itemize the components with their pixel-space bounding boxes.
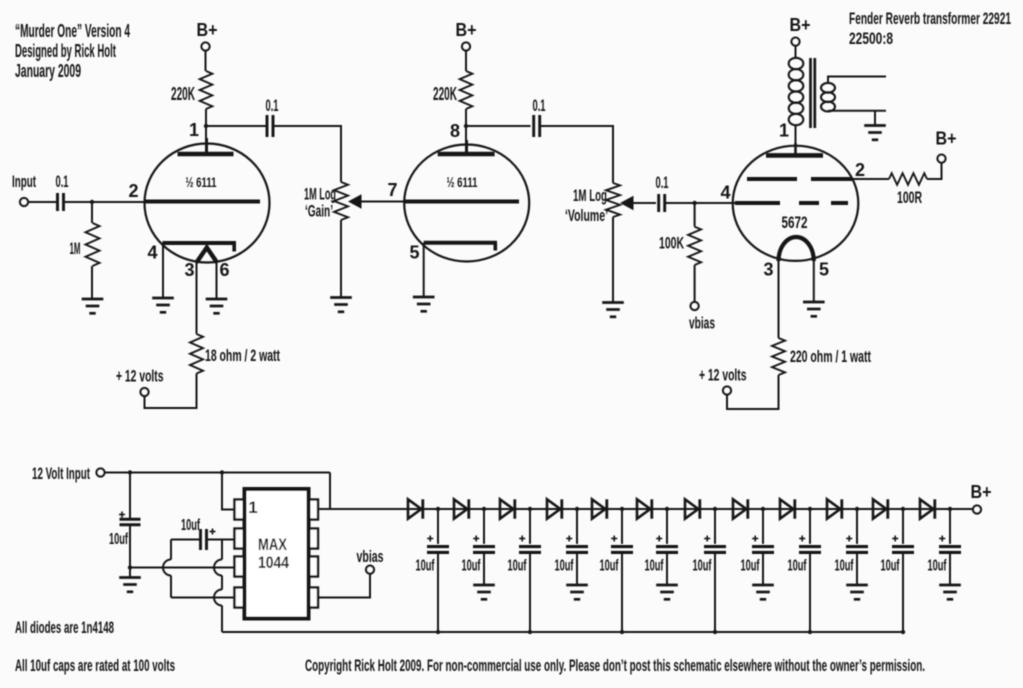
- capacitor 10uf ladder C5: [611, 547, 633, 553]
- label 10uf ladder C6: [645, 558, 664, 575]
- ground gain pot: [330, 298, 352, 312]
- wire cap C10 to ground: [856, 552, 858, 585]
- wire cap C4 top lead: [576, 509, 578, 544]
- node rail junction C3: [528, 630, 532, 634]
- plus sign ladder C3: [519, 536, 525, 542]
- svg-text:10uf: 10uf: [181, 517, 200, 534]
- ground pin 5 V2: [413, 297, 435, 311]
- svg-text:MAX: MAX: [258, 535, 288, 554]
- node junction after D3: [528, 507, 532, 511]
- wire cap C12 to ground: [949, 552, 951, 585]
- wire cap B minus to pin 4: [171, 597, 235, 599]
- tube V2 plate riser: [465, 140, 468, 154]
- svg-text:4: 4: [720, 183, 730, 203]
- svg-text:10uf: 10uf: [109, 531, 128, 548]
- svg-text:0.1: 0.1: [266, 96, 279, 115]
- wire cap C5 to pump rail: [621, 552, 623, 632]
- node junction after D9: [808, 507, 812, 511]
- svg-text:B+: B+: [197, 20, 218, 40]
- label Gain: [305, 202, 333, 221]
- svg-text:B+: B+: [456, 20, 477, 40]
- node junction after D10: [855, 507, 859, 511]
- diode D4 1n4148: [547, 499, 562, 518]
- plus sign ladder C5: [611, 536, 617, 542]
- plus sign ladder C1: [427, 536, 433, 542]
- diode D8 1n4148: [733, 499, 748, 518]
- wire cap C2 to ground: [483, 552, 485, 585]
- label 10uf ladder C3: [508, 558, 527, 575]
- wire 1M to ground: [91, 266, 93, 299]
- node rail junction C9: [808, 630, 812, 634]
- label +12 volts stage 1: [116, 367, 164, 386]
- capacitor 10uf ladder C11: [892, 547, 914, 553]
- tube V2 half 6111 envelope: [404, 145, 529, 262]
- svg-text:5: 5: [409, 243, 419, 263]
- wire pin 3 V3 to R 220ohm: [778, 259, 780, 338]
- pin 8 label: [450, 121, 460, 141]
- wire secondary bottom lead: [828, 110, 886, 112]
- terminal +12 volts stage 3: [723, 387, 731, 395]
- capacitor 10uf ladder C9: [799, 547, 821, 553]
- wire gain wiper to pin 7: [360, 201, 405, 203]
- svg-text:18 ohm / 2 watt: 18 ohm / 2 watt: [205, 346, 280, 365]
- ground ladder C6: [656, 585, 678, 599]
- terminal 12 volt input: [97, 469, 105, 477]
- node plate junction stage 2: [464, 124, 468, 128]
- svg-text:5672: 5672: [782, 213, 808, 232]
- tube V1 grid bar pin 2: [145, 200, 260, 204]
- wire cap A top lead: [129, 473, 131, 519]
- capacitor C2 0.1 coupling stage 1: [267, 115, 273, 137]
- svg-text:10uf: 10uf: [600, 558, 619, 575]
- label B+ screen: [936, 129, 957, 149]
- label B+ output: [971, 482, 992, 502]
- svg-text:+ 12 volts: + 12 volts: [699, 366, 747, 385]
- svg-text:B+: B+: [971, 482, 992, 502]
- IC U2 MAX1044 pins: [235, 500, 319, 608]
- terminal +12 volts stage 1: [141, 388, 149, 396]
- wire 220ohm to +12V terminal: [727, 375, 779, 409]
- wire cap C12 top lead: [949, 509, 951, 544]
- tube V2 cathode bar: [424, 243, 497, 251]
- svg-text:“Murder One” Version 4: “Murder One” Version 4: [15, 21, 130, 41]
- terminal vbias output: [366, 566, 374, 574]
- label 10uf cap A: [109, 531, 128, 548]
- wire gain pot to ground: [340, 220, 342, 298]
- svg-text:10uf: 10uf: [741, 558, 760, 575]
- capacitor C4 0.1 coupling stage 3: [659, 194, 665, 212]
- pin 2 label V3: [855, 160, 865, 180]
- wire pin 6 to ground: [216, 262, 218, 299]
- resistor 18 ohm 2 watt: [190, 334, 203, 374]
- label Volume: [565, 206, 608, 225]
- label 220K stage 2: [433, 84, 457, 104]
- diode D11 1n4148: [873, 499, 888, 518]
- ground pin 5 V3: [803, 302, 825, 316]
- node junction after D7: [713, 507, 717, 511]
- svg-text:0.1: 0.1: [533, 96, 546, 115]
- label 1044: [258, 553, 289, 572]
- svg-text:1: 1: [248, 498, 257, 517]
- tube V3 plate riser: [794, 143, 797, 155]
- wire 220K to plate stage 2: [465, 109, 467, 154]
- svg-text:½ 6111: ½ 6111: [447, 174, 478, 190]
- tube V1 plate riser: [205, 138, 208, 154]
- svg-text:Designed by Rick Holt: Designed by Rick Holt: [15, 41, 116, 61]
- wire screen to 100R: [852, 178, 889, 180]
- label Input: [12, 172, 36, 191]
- svg-text:10uf: 10uf: [788, 558, 807, 575]
- plus sign ladder C12: [939, 536, 945, 542]
- label 18 ohm / 2 watt: [205, 346, 280, 365]
- node ground junction: [128, 565, 132, 569]
- svg-text:Input: Input: [12, 172, 36, 191]
- terminal B+ transformer: [792, 38, 800, 46]
- label 1M Log volume: [573, 186, 607, 205]
- label 0.1 coupling stage 1: [266, 96, 279, 115]
- pin 4 label: [147, 243, 157, 263]
- terminal vbias stage 3: [691, 302, 699, 310]
- wire cap C1 top lead: [437, 509, 439, 544]
- capacitor 10uf ladder C1: [427, 547, 449, 553]
- pin 6 label: [219, 260, 229, 280]
- svg-text:220K: 220K: [171, 84, 195, 104]
- svg-text:10uf: 10uf: [555, 558, 574, 575]
- svg-text:100K: 100K: [659, 234, 684, 253]
- label 10uf ladder C7: [693, 558, 712, 575]
- wire pin 4 to ground: [162, 243, 164, 298]
- wire pump node vertical with hops: [214, 540, 222, 633]
- wire pump rail: [222, 631, 903, 633]
- pin 3 label V3: [763, 260, 773, 280]
- pin 4 label V3: [720, 183, 730, 203]
- wire diode chain: [318, 508, 973, 510]
- terminal B+ stage 2: [462, 43, 470, 51]
- wire cap C6 to ground: [666, 552, 668, 585]
- pin 2 label: [128, 181, 138, 201]
- plus sign cap B: [210, 529, 216, 535]
- node junction after D6: [665, 507, 669, 511]
- svg-text:22500:8: 22500:8: [849, 29, 893, 48]
- label 22500:8: [849, 29, 893, 48]
- label 10uf ladder C9: [788, 558, 807, 575]
- svg-text:All diodes are 1n4148: All diodes are 1n4148: [15, 618, 114, 637]
- node junction pin1 drop: [220, 470, 224, 474]
- tube V3 control grid dashes pin 4: [735, 201, 848, 205]
- wire C4 to grid pin 4: [665, 202, 735, 204]
- wire cap C8 top lead: [762, 509, 764, 544]
- pot gain wiper arrow: [348, 194, 362, 209]
- label 5672: [782, 213, 808, 232]
- wire C2 to gain pot: [273, 126, 341, 182]
- diode D2 1n4148: [454, 499, 469, 518]
- wire C3 to volume pot: [540, 126, 613, 183]
- plus sign ladder C2: [473, 536, 479, 542]
- wire B+ to R 220K: [205, 51, 207, 72]
- svg-text:January 2009: January 2009: [15, 61, 81, 81]
- label MAX: [258, 535, 288, 554]
- resistor 220 ohm 1 watt: [772, 338, 785, 375]
- plus sign ladder C9: [799, 536, 805, 542]
- svg-text:2: 2: [128, 181, 138, 201]
- plus sign ladder C11: [892, 536, 898, 542]
- wire cap C3 to pump rail: [529, 552, 531, 632]
- wire secondary top lead: [828, 77, 886, 84]
- capacitor 10uf A vertical: [120, 519, 141, 524]
- note copyright: [305, 656, 925, 675]
- ground pin 6: [206, 299, 228, 313]
- plus sign ladder C7: [704, 536, 710, 542]
- label 0.1 input cap: [56, 172, 69, 191]
- wire cap C11 to pump rail: [902, 552, 904, 632]
- capacitor 10uf ladder C2: [473, 547, 495, 553]
- label 10uf ladder C2: [462, 558, 481, 575]
- svg-text:vbias: vbias: [357, 547, 384, 566]
- wire cap C10 top lead: [856, 509, 858, 544]
- wire plate junction to C3: [466, 125, 531, 127]
- svg-text:8: 8: [450, 121, 460, 141]
- ground ladder C12: [939, 585, 961, 599]
- wire vbias to pin 5: [318, 574, 370, 598]
- node B+ (stage 2) label: [456, 20, 477, 40]
- wire junction to 100K: [694, 203, 696, 227]
- ground cap A: [119, 578, 141, 592]
- title text line 3: [15, 61, 81, 81]
- wire cap B minus vertical with hop: [163, 540, 171, 598]
- svg-text:Fender Reverb transformer 2292: Fender Reverb transformer 22921: [849, 9, 1011, 28]
- wire rail corner to pin 8: [329, 473, 331, 510]
- plus sign ladder C8: [752, 536, 758, 542]
- wire cap C7 to pump rail: [714, 552, 716, 632]
- capacitor 10uf ladder C8: [752, 547, 774, 553]
- svg-text:220K: 220K: [433, 84, 457, 104]
- label 10uf cap B: [181, 517, 200, 534]
- svg-text:10uf: 10uf: [645, 558, 664, 575]
- node junction after D2: [482, 507, 486, 511]
- plus sign ladder C10: [846, 536, 852, 542]
- wire cap A bottom lead: [129, 525, 131, 578]
- svg-text:1044: 1044: [258, 553, 289, 572]
- svg-text:+ 12 volts: + 12 volts: [116, 367, 164, 386]
- wire cap C7 top lead: [714, 509, 716, 544]
- node B+ (stage 1) label: [197, 20, 218, 40]
- node plate junction stage 1: [204, 124, 208, 128]
- wire 220K to plate: [205, 109, 207, 154]
- svg-text:3: 3: [763, 260, 773, 280]
- label 100R: [897, 188, 922, 207]
- label half 6111 V1: [186, 174, 217, 190]
- node rail junction C11: [901, 630, 905, 634]
- tube V1 cathode bar: [163, 243, 237, 252]
- label 10uf ladder C11: [881, 558, 900, 575]
- transformer T1 core: [811, 58, 815, 128]
- terminal B+ screen: [938, 155, 946, 163]
- wire cap C9 top lead: [809, 509, 811, 544]
- ground ladder C8: [752, 585, 774, 599]
- pin 7 label: [387, 180, 397, 200]
- svg-text:½ 6111: ½ 6111: [186, 174, 217, 190]
- capacitor 10uf ladder C12: [939, 547, 961, 553]
- svg-text:3: 3: [184, 260, 194, 280]
- label 12 Volt Input: [32, 464, 90, 483]
- tube V3 plate bar: [766, 153, 823, 158]
- wire B+ to R 220K stage 2: [465, 51, 467, 72]
- svg-text:0.1: 0.1: [56, 172, 69, 191]
- label vbias output: [357, 547, 384, 566]
- node junction after D8: [761, 507, 765, 511]
- pot volume wiper arrow: [620, 196, 634, 211]
- svg-text:4: 4: [147, 243, 157, 263]
- svg-text:5: 5: [819, 260, 829, 280]
- label 10uf ladder C4: [555, 558, 574, 575]
- wire volume pot to ground: [612, 217, 614, 303]
- svg-text:1M Log: 1M Log: [573, 186, 607, 205]
- wire ground to pin 3: [130, 567, 235, 569]
- wire B+ to primary: [795, 46, 797, 59]
- tube V2 plate bar: [438, 152, 495, 157]
- wire volume wiper to C4: [632, 202, 656, 204]
- tube V3 5672 envelope: [733, 146, 859, 261]
- svg-text:‘Volume’: ‘Volume’: [565, 206, 608, 225]
- wire C1 to grid: [64, 201, 145, 203]
- wire pin 5 V3 to ground: [813, 259, 815, 302]
- node junction after D4: [575, 507, 579, 511]
- svg-text:100R: 100R: [897, 188, 922, 207]
- capacitor C3 0.1 coupling stage 2: [534, 115, 540, 137]
- wire cap B right lead to pin 2: [206, 539, 235, 541]
- ground ladder C2: [473, 585, 495, 599]
- tube V3 filament arc: [779, 237, 814, 261]
- label 1M: [70, 239, 81, 258]
- svg-text:220 ohm / 1 watt: 220 ohm / 1 watt: [790, 347, 871, 366]
- wire cap C8 to ground: [762, 552, 764, 585]
- tube V1 filament: [197, 248, 218, 263]
- resistor 100K: [688, 227, 701, 265]
- label vbias stage 3: [689, 314, 715, 333]
- label 10uf ladder C1: [416, 558, 435, 575]
- pin 1 label V3: [779, 121, 789, 141]
- node junction after D5: [620, 507, 624, 511]
- title text line 2: [15, 41, 116, 61]
- terminal B+ stage 1: [202, 43, 210, 51]
- tube V1 plate bar: [178, 152, 234, 157]
- diode D3 1n4148: [500, 499, 515, 518]
- diode D5 1n4148: [592, 499, 607, 518]
- wire cap C2 top lead: [483, 509, 485, 544]
- svg-text:10uf: 10uf: [462, 558, 481, 575]
- wire junction to 1M: [91, 202, 93, 223]
- wire input jack to C1: [28, 201, 57, 203]
- plus sign cap A: [119, 512, 125, 518]
- resistor 220K stage 2: [460, 71, 473, 109]
- node rail junction C5: [620, 630, 624, 634]
- title text line 1: [15, 21, 130, 41]
- plus sign ladder C4: [566, 536, 572, 542]
- svg-text:12 Volt Input: 12 Volt Input: [32, 464, 90, 483]
- svg-text:1M: 1M: [70, 239, 81, 258]
- svg-text:10uf: 10uf: [835, 558, 854, 575]
- plus sign ladder C6: [656, 536, 662, 542]
- node grid junction stage 1: [90, 200, 94, 204]
- wire secondary ground tap: [874, 111, 876, 126]
- svg-text:6: 6: [219, 260, 229, 280]
- node junction cap A: [128, 470, 132, 474]
- diode D1 1n4148: [408, 499, 423, 518]
- label 100K: [659, 234, 684, 253]
- node junction after D11: [901, 507, 905, 511]
- wire cap C11 top lead: [902, 509, 904, 544]
- pin 3 label: [184, 260, 194, 280]
- node junction after D12: [948, 507, 952, 511]
- ground pin 4: [152, 298, 174, 312]
- label +12 volts stage 3: [699, 366, 747, 385]
- wire rail to pin 1: [222, 473, 235, 510]
- tube U1 half 6111 envelope: [145, 144, 270, 263]
- node junction after D1: [436, 507, 440, 511]
- pin 5 label V2: [409, 243, 419, 263]
- diode D12 1n4148: [920, 499, 935, 518]
- wire cap C1 to pump rail: [437, 552, 439, 632]
- ground below 1M: [82, 299, 104, 313]
- wire pin 3 to R 18ohm: [196, 262, 198, 334]
- label 1M Log gain: [304, 185, 336, 204]
- wire cap C4 to ground: [576, 552, 578, 585]
- wire 18ohm to +12V terminal: [145, 374, 197, 409]
- label 0.1 coupling stage 3: [656, 173, 669, 192]
- diode D10 1n4148: [827, 499, 842, 518]
- resistor 1M: [86, 223, 100, 266]
- ground ladder C10: [846, 585, 868, 599]
- label 10uf ladder C12: [928, 558, 947, 575]
- capacitor 10uf ladder C7: [704, 547, 726, 553]
- wire cap B left lead: [171, 539, 201, 541]
- wire 100R to B+ terminal: [927, 163, 942, 179]
- capacitor 10uf ladder C10: [846, 547, 868, 553]
- diode D7 1n4148: [685, 499, 700, 518]
- label 220 ohm / 1 watt: [790, 347, 871, 366]
- node rail junction C7: [713, 630, 717, 634]
- resistor 220K stage 1: [200, 71, 213, 109]
- svg-text:10uf: 10uf: [416, 558, 435, 575]
- capacitor C1 0.1 input: [58, 193, 64, 211]
- svg-text:All 10uf caps are rated at 100: All 10uf caps are rated at 100 volts: [15, 656, 175, 675]
- capacitor 10uf ladder C3: [519, 547, 541, 553]
- svg-text:B+: B+: [790, 15, 811, 35]
- node grid junction stage 3: [692, 201, 696, 205]
- transformer T1 secondary winding: [821, 83, 835, 112]
- wire plate to cap C2: [206, 125, 268, 127]
- ground ladder C4: [566, 585, 588, 599]
- label Fender Reverb transformer: [849, 9, 1011, 28]
- wire pin 5 to ground: [423, 243, 425, 297]
- IC pin 1 label: [248, 498, 257, 517]
- potentiometer 1M Log Volume element: [606, 183, 620, 217]
- wire +12V rail: [105, 472, 331, 474]
- tube V2 grid bar pin 7: [404, 200, 519, 204]
- wire cap C5 top lead: [621, 509, 623, 544]
- ground secondary: [864, 126, 886, 140]
- svg-text:1: 1: [189, 120, 199, 140]
- svg-text:2: 2: [855, 160, 865, 180]
- svg-text:10uf: 10uf: [508, 558, 527, 575]
- svg-text:7: 7: [387, 180, 397, 200]
- potentiometer 1M Log Gain element: [334, 182, 348, 220]
- note caps: [15, 656, 175, 675]
- svg-text:B+: B+: [936, 129, 957, 149]
- wire cap C9 to pump rail: [809, 552, 811, 632]
- svg-text:1: 1: [779, 121, 789, 141]
- IC U2 MAX1044 body: [245, 489, 309, 619]
